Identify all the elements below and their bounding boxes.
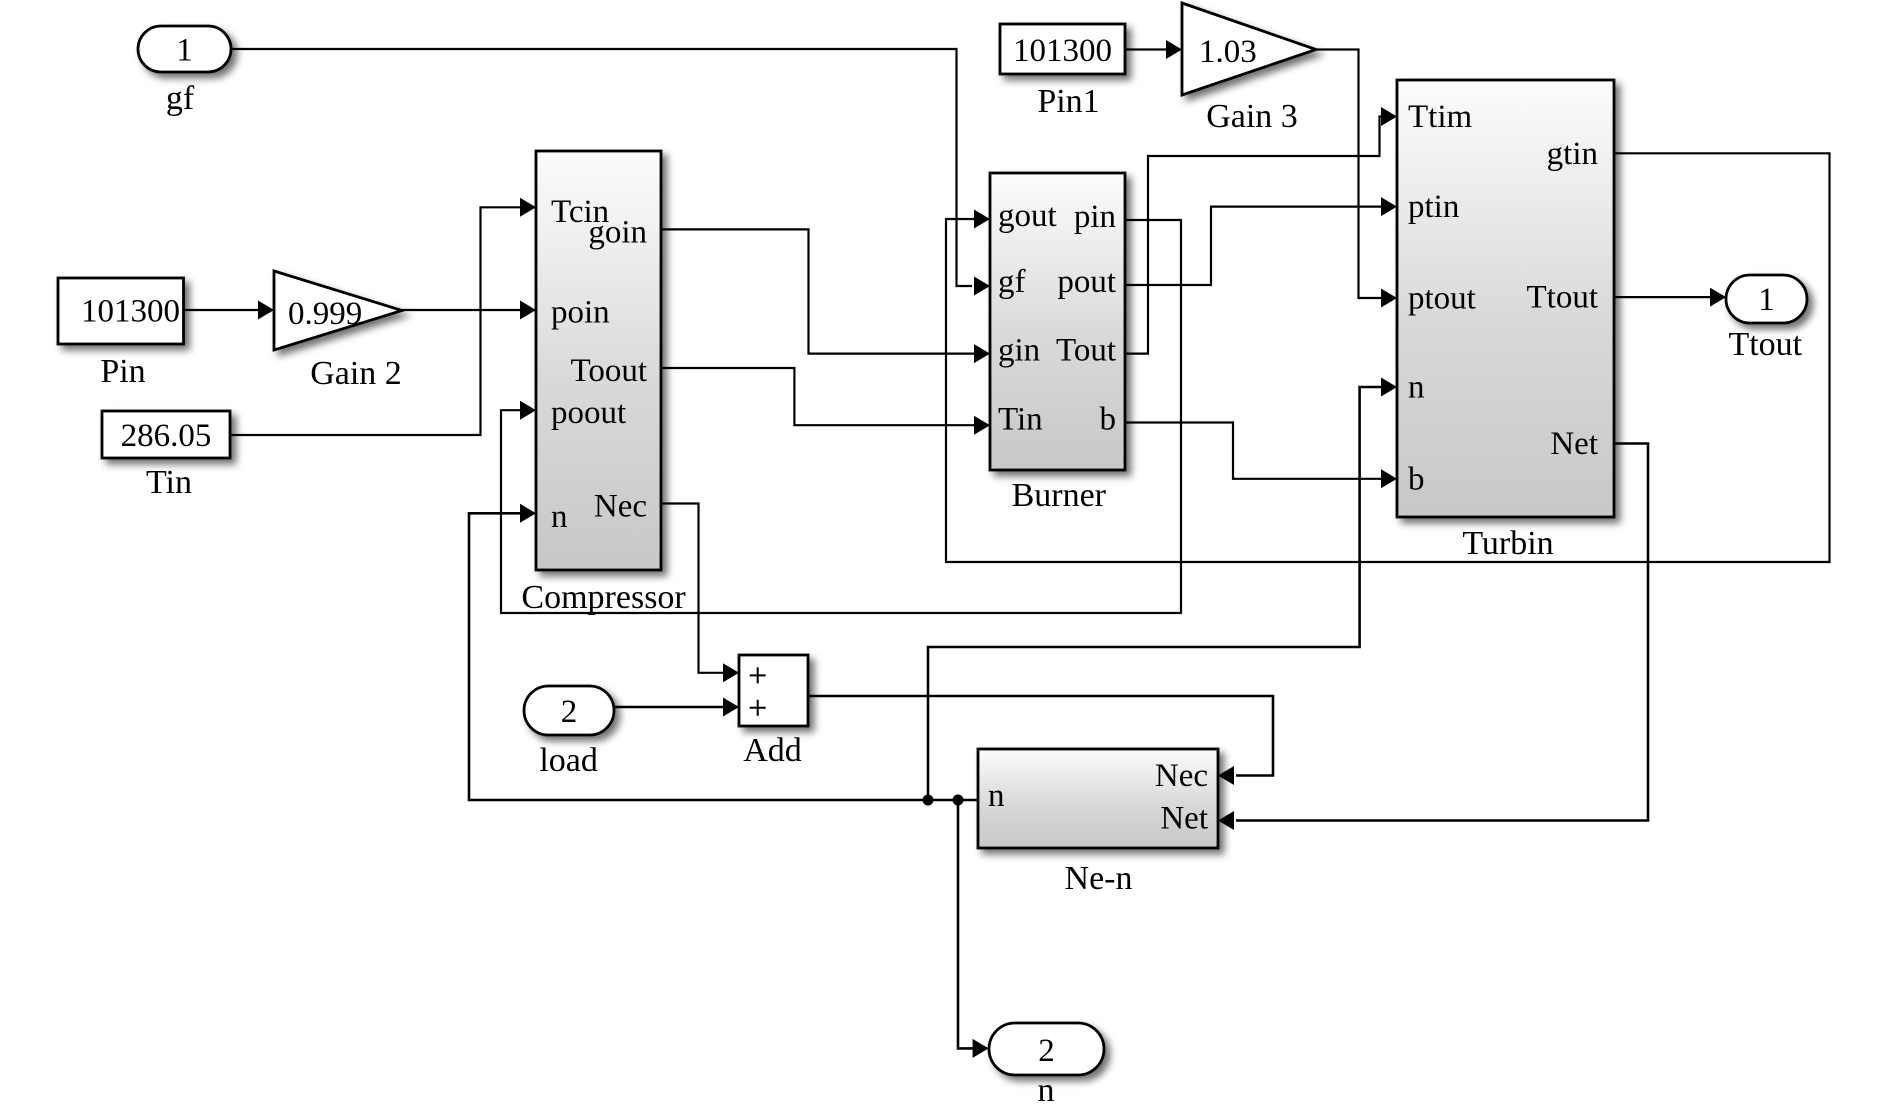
junction dot A on n wire: [923, 795, 934, 806]
wire n branch to outport 2: [958, 800, 973, 1048]
svg-text:Tout: Tout: [1056, 333, 1116, 369]
svg-text:2: 2: [1038, 1033, 1055, 1069]
svg-text:Turbin: Turbin: [1462, 525, 1553, 562]
wire Pin to Gain 2: [183, 309, 258, 311]
svg-text:n: n: [1408, 370, 1425, 406]
wire Turbin gtin to Burner gout: [946, 153, 1830, 562]
gain Gain 3: [1182, 3, 1316, 95]
constant Pin 101300: [58, 278, 184, 344]
svg-text:1: 1: [1758, 282, 1775, 318]
svg-text:poin: poin: [551, 295, 610, 331]
arrowhead: Turbin gtin to Burner gout: [974, 210, 990, 229]
wire Gain 3 to Turbin ptout: [1316, 50, 1381, 299]
svg-text:gtin: gtin: [1547, 136, 1598, 172]
arrowhead: Add output to Ne-n Nec: [1218, 766, 1234, 785]
plus sign input 1: [750, 667, 766, 683]
arrowhead: Tin constant to Compressor Tcin: [520, 198, 536, 217]
svg-text:101300: 101300: [1013, 33, 1112, 69]
wire Compressor goin to Burner gin: [661, 229, 974, 353]
svg-text:Nec: Nec: [594, 489, 647, 525]
arrowhead: load inport to Add input 2: [723, 698, 739, 717]
svg-text:Pin: Pin: [100, 353, 145, 390]
wire Tin constant to Compressor Tcin: [230, 207, 520, 435]
wire Compressor Nec to Add input 1: [661, 504, 723, 673]
arrowhead: Pin to Gain 2: [258, 301, 274, 320]
svg-text:gout: gout: [998, 198, 1057, 234]
sum block Add: [739, 655, 808, 726]
wire Turbin Ttout to outport 1: [1614, 296, 1710, 298]
wire Burner b to Turbin b: [1125, 423, 1381, 479]
svg-text:gf: gf: [998, 264, 1026, 300]
svg-text:poout: poout: [551, 395, 626, 431]
svg-text:ptout: ptout: [1408, 281, 1476, 317]
svg-text:b: b: [1408, 461, 1425, 497]
wire Burner pin to Compressor poout: [501, 220, 1181, 613]
svg-text:Compressor: Compressor: [521, 579, 686, 616]
wire Add output to Ne-n Nec: [808, 696, 1273, 776]
arrowhead: Turbin Ttout to outport 1: [1710, 288, 1726, 307]
arrowhead: Compressor Nec to Add input 1: [723, 663, 739, 682]
svg-text:Net: Net: [1550, 426, 1598, 462]
subsystem Turbin: [1397, 80, 1614, 517]
svg-text:1.03: 1.03: [1199, 34, 1257, 70]
svg-text:pout: pout: [1057, 264, 1116, 300]
svg-text:Burner: Burner: [1012, 477, 1107, 514]
arrowhead: n feedback: Ne-n n output to Compressor n: [520, 504, 536, 523]
wire gf: inport 1 to Burner gf: [231, 49, 972, 286]
wire Compressor Toout to Burner Tin: [661, 368, 974, 425]
wire n branch to Turbin n: [928, 387, 1381, 800]
svg-text:gf: gf: [166, 80, 195, 117]
svg-text:Gain 2: Gain 2: [310, 355, 402, 392]
wire load inport to Add input 2: [614, 706, 723, 709]
plus sign input 2: [750, 700, 766, 716]
svg-text:Add: Add: [743, 732, 802, 769]
subsystem Compressor: [536, 151, 661, 570]
arrowhead: Burner pout to Turbin ptin: [1381, 197, 1397, 216]
arrowhead: Pin1 constant to Gain 3: [1166, 40, 1182, 59]
svg-text:Tin: Tin: [146, 464, 192, 501]
arrowhead: n branch to Turbin n: [1381, 378, 1397, 397]
arrowhead: Gain 3 to Turbin ptout: [1381, 289, 1397, 308]
svg-text:Net: Net: [1160, 801, 1208, 837]
svg-text:0.999: 0.999: [288, 296, 362, 332]
subsystem Burner: [990, 173, 1125, 470]
svg-text:Nec: Nec: [1155, 758, 1208, 794]
svg-text:Gain 3: Gain 3: [1206, 98, 1298, 135]
subsystem Ne-n: [978, 749, 1218, 848]
svg-text:Ttout: Ttout: [1728, 326, 1802, 363]
inport 2 load oval: [524, 686, 614, 735]
svg-text:load: load: [539, 742, 598, 779]
arrowhead: Burner b to Turbin b: [1381, 469, 1397, 488]
wire Pin1 constant to Gain 3: [1125, 48, 1166, 50]
svg-text:2: 2: [561, 694, 578, 730]
outport 1 Ttout oval: [1726, 275, 1807, 323]
svg-text:ptin: ptin: [1408, 189, 1459, 225]
node gf arrow into Burner: [974, 277, 990, 296]
arrowhead: Burner pin to Compressor poout: [520, 401, 536, 420]
wire Burner Tout to Turbin Ttim: [1125, 117, 1381, 354]
svg-text:Ttout: Ttout: [1527, 280, 1599, 316]
svg-text:b: b: [1100, 402, 1117, 438]
svg-text:Pin1: Pin1: [1037, 83, 1099, 120]
svg-text:Ne-n: Ne-n: [1065, 860, 1133, 897]
wire n feedback: Ne-n n output to Compressor n: [469, 513, 978, 800]
arrowhead: Burner Tout to Turbin Ttim: [1381, 107, 1397, 126]
svg-text:n: n: [551, 499, 568, 535]
svg-text:pin: pin: [1074, 199, 1116, 235]
wire Turbin Net to Ne-n Net: [1236, 444, 1648, 821]
svg-text:n: n: [988, 778, 1005, 814]
svg-text:Tin: Tin: [998, 402, 1043, 438]
constant Tin 286.05: [102, 411, 230, 458]
svg-text:1: 1: [176, 33, 193, 69]
arrowhead: Turbin Net to Ne-n Net: [1218, 811, 1234, 830]
inport 1 gf oval: [138, 26, 231, 72]
svg-text:101300: 101300: [81, 294, 180, 330]
arrowhead: Compressor goin to Burner gin: [974, 344, 990, 363]
svg-text:286.05: 286.05: [121, 418, 212, 454]
svg-text:Toout: Toout: [570, 353, 647, 389]
arrowhead: n branch to outport 2: [973, 1039, 989, 1058]
svg-text:n: n: [1038, 1072, 1055, 1109]
wire Burner pout to Turbin ptin: [1125, 207, 1381, 285]
arrowhead: Compressor Toout to Burner Tin: [974, 416, 990, 435]
svg-text:goin: goin: [588, 214, 647, 250]
gain Gain 2: [274, 271, 402, 350]
svg-text:gin: gin: [998, 333, 1040, 369]
wire Gain 2 to Compressor poin: [402, 309, 520, 311]
arrowhead: Gain 2 to Compressor poin: [520, 301, 536, 320]
constant Pin1 101300: [1000, 24, 1125, 74]
outport 2 n oval: [989, 1023, 1104, 1075]
svg-text:Ttim: Ttim: [1408, 99, 1472, 135]
junction dot B on n wire: [953, 795, 964, 806]
